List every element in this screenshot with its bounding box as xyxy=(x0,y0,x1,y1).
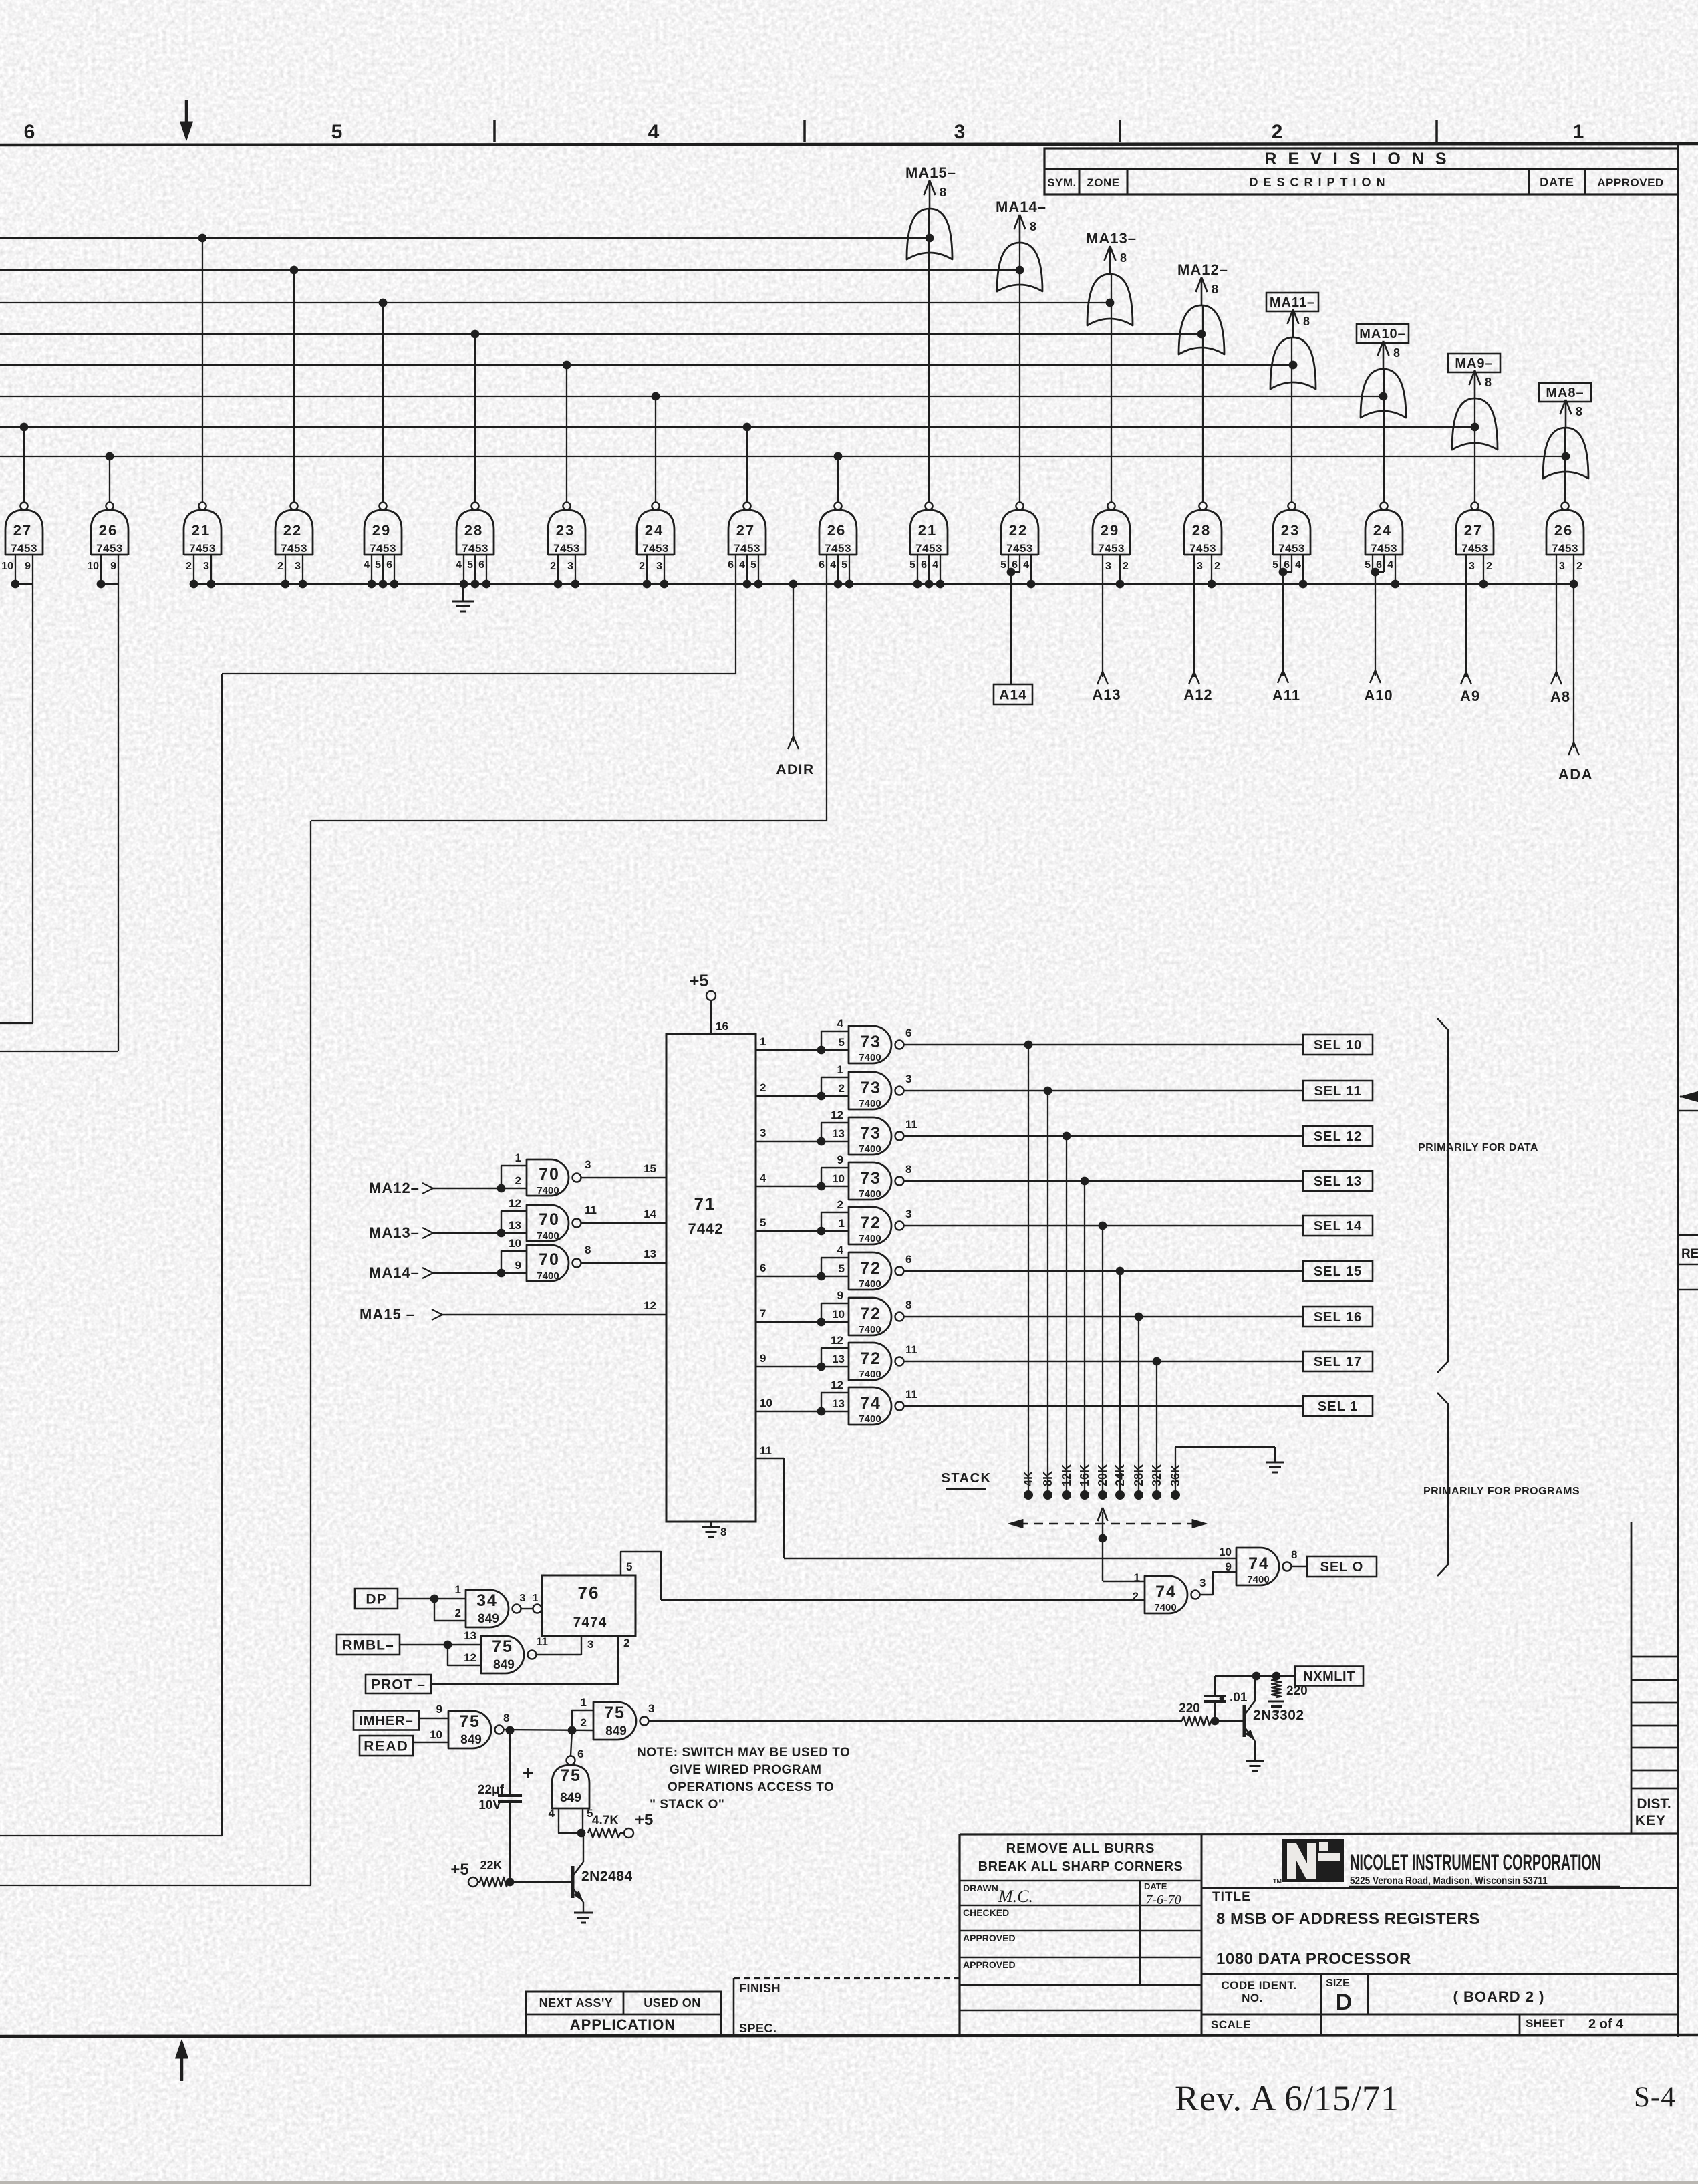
svg-text:3: 3 xyxy=(1105,561,1111,572)
svg-text:11: 11 xyxy=(585,1204,597,1216)
svg-text:SEL 11: SEL 11 xyxy=(1314,1084,1361,1099)
svg-text:70: 70 xyxy=(539,1210,560,1229)
svg-text:GIVE WIRED PROGRAM: GIVE WIRED PROGRAM xyxy=(670,1763,822,1777)
svg-text:21: 21 xyxy=(192,522,210,539)
svg-text:1: 1 xyxy=(760,1035,766,1048)
svg-text:SIZE: SIZE xyxy=(1326,1977,1350,1989)
svg-text:11: 11 xyxy=(905,1118,917,1131)
svg-text:74: 74 xyxy=(1248,1554,1270,1573)
svg-text:7453: 7453 xyxy=(915,542,942,555)
svg-text:7453: 7453 xyxy=(734,542,760,555)
svg-text:7453: 7453 xyxy=(1189,542,1216,555)
svg-text:849: 849 xyxy=(605,1724,627,1738)
svg-text:8: 8 xyxy=(1212,283,1218,296)
svg-text:SEL 10: SEL 10 xyxy=(1314,1038,1362,1053)
svg-text:13: 13 xyxy=(509,1219,521,1232)
svg-text:A13: A13 xyxy=(1092,686,1121,703)
svg-text:APPLICATION: APPLICATION xyxy=(570,2016,676,2033)
svg-text:PRIMARILY FOR PROGRAMS: PRIMARILY FOR PROGRAMS xyxy=(1423,1486,1580,1497)
svg-text:7400: 7400 xyxy=(859,1278,881,1290)
svg-text:2: 2 xyxy=(1123,561,1129,572)
svg-text:72: 72 xyxy=(860,1349,881,1368)
svg-text:5: 5 xyxy=(1272,559,1278,571)
svg-text:13: 13 xyxy=(832,1127,845,1140)
svg-text:DATE: DATE xyxy=(1144,1881,1167,1891)
svg-text:28K: 28K xyxy=(1132,1464,1145,1486)
svg-text:4: 4 xyxy=(837,1017,844,1030)
svg-text:28: 28 xyxy=(464,522,483,539)
svg-text:A14: A14 xyxy=(999,688,1027,703)
svg-text:10: 10 xyxy=(430,1728,442,1741)
svg-text:DRAWN: DRAWN xyxy=(963,1883,998,1893)
svg-text:5: 5 xyxy=(467,559,473,571)
svg-text:NOTE: SWITCH MAY BE USED T: NOTE: SWITCH MAY BE USED TO xyxy=(637,1746,850,1760)
svg-text:7453: 7453 xyxy=(11,542,37,555)
svg-text:+: + xyxy=(523,1762,533,1783)
svg-text:3: 3 xyxy=(905,1073,911,1085)
svg-text:7400: 7400 xyxy=(537,1230,559,1242)
svg-text:7474: 7474 xyxy=(573,1615,607,1630)
svg-text:SEL 13: SEL 13 xyxy=(1314,1174,1362,1189)
svg-text:3: 3 xyxy=(295,561,301,572)
svg-text:READ: READ xyxy=(364,1739,409,1754)
svg-text:6: 6 xyxy=(478,559,484,571)
svg-text:6: 6 xyxy=(728,559,734,571)
svg-text:SEL 16: SEL 16 xyxy=(1314,1310,1362,1325)
svg-text:8: 8 xyxy=(940,186,946,199)
svg-text:4: 4 xyxy=(364,559,370,571)
svg-text:5: 5 xyxy=(331,121,343,143)
svg-text:8: 8 xyxy=(503,1712,509,1724)
svg-text:SEL 17: SEL 17 xyxy=(1314,1355,1362,1369)
svg-text:2: 2 xyxy=(186,561,192,572)
svg-text:11: 11 xyxy=(905,1343,917,1356)
svg-text:220: 220 xyxy=(1286,1684,1308,1698)
svg-text:2: 2 xyxy=(1486,561,1492,572)
svg-text:9: 9 xyxy=(837,1289,843,1302)
svg-text:72: 72 xyxy=(860,1214,881,1232)
svg-text:5: 5 xyxy=(626,1560,632,1573)
svg-text:A11: A11 xyxy=(1272,687,1300,704)
svg-text:1: 1 xyxy=(839,1217,845,1230)
svg-text:72: 72 xyxy=(860,1259,881,1278)
svg-text:Rev. A 6/15/71: Rev. A 6/15/71 xyxy=(1175,2078,1399,2119)
svg-text:5225 Verona Road, Madison, Wis: 5225 Verona Road, Madison, Wisconsin 537… xyxy=(1350,1875,1548,1887)
svg-text:13: 13 xyxy=(832,1353,845,1365)
svg-text:849: 849 xyxy=(560,1791,581,1805)
svg-text:2: 2 xyxy=(455,1607,461,1619)
svg-text:4: 4 xyxy=(760,1172,766,1184)
svg-text:73: 73 xyxy=(860,1079,881,1097)
svg-text:29: 29 xyxy=(372,522,391,539)
svg-text:3: 3 xyxy=(656,561,662,572)
svg-text:ADIR: ADIR xyxy=(776,762,814,777)
svg-text:4.7K: 4.7K xyxy=(592,1814,619,1828)
svg-text:27: 27 xyxy=(1464,522,1483,539)
svg-text:MA12–: MA12– xyxy=(1177,261,1228,278)
svg-text:APPROVED: APPROVED xyxy=(963,1959,1016,1970)
svg-text:8: 8 xyxy=(1485,376,1492,389)
svg-text:TITLE: TITLE xyxy=(1212,1890,1251,1904)
svg-text:7453: 7453 xyxy=(1552,542,1578,555)
svg-text:A8: A8 xyxy=(1550,688,1570,705)
svg-text:MA9–: MA9– xyxy=(1455,356,1493,371)
svg-text:6: 6 xyxy=(921,559,927,571)
svg-text:12: 12 xyxy=(831,1379,843,1391)
svg-text:A12: A12 xyxy=(1183,686,1212,703)
svg-text:7453: 7453 xyxy=(189,542,216,555)
svg-text:9: 9 xyxy=(110,561,116,572)
svg-text:NXMLIT: NXMLIT xyxy=(1303,1669,1355,1684)
svg-text:1: 1 xyxy=(1573,121,1584,143)
svg-text:74: 74 xyxy=(860,1394,881,1413)
svg-text:12: 12 xyxy=(831,1334,843,1347)
svg-text:13: 13 xyxy=(644,1248,656,1260)
svg-text:2: 2 xyxy=(623,1637,629,1649)
svg-text:MA13–: MA13– xyxy=(1086,230,1137,247)
svg-text:SEL 12: SEL 12 xyxy=(1314,1129,1362,1144)
svg-text:8: 8 xyxy=(905,1299,911,1311)
svg-text:8: 8 xyxy=(1303,315,1310,328)
svg-text:7400: 7400 xyxy=(859,1324,881,1335)
svg-text:3: 3 xyxy=(954,121,966,143)
svg-text:7400: 7400 xyxy=(1247,1574,1269,1585)
svg-text:FINISH: FINISH xyxy=(739,1982,781,1995)
svg-text:34: 34 xyxy=(476,1591,498,1610)
svg-text:4K: 4K xyxy=(1022,1471,1035,1486)
svg-text:74: 74 xyxy=(1155,1583,1177,1601)
svg-text:6: 6 xyxy=(577,1748,583,1760)
svg-text:8: 8 xyxy=(1393,346,1400,360)
svg-text:DP: DP xyxy=(366,1592,386,1607)
svg-text:7453: 7453 xyxy=(281,542,307,555)
svg-text:12: 12 xyxy=(831,1109,843,1121)
svg-text:4: 4 xyxy=(739,559,745,571)
svg-text:22: 22 xyxy=(1009,522,1028,539)
svg-text:2 of 4: 2 of 4 xyxy=(1588,2017,1624,2032)
svg-text:MA8–: MA8– xyxy=(1546,386,1584,400)
svg-text:73: 73 xyxy=(860,1124,881,1143)
svg-text:7453: 7453 xyxy=(96,542,123,555)
svg-text:2: 2 xyxy=(515,1174,521,1187)
svg-text:5: 5 xyxy=(375,559,381,571)
svg-text:D: D xyxy=(1336,1990,1353,2015)
svg-text:7453: 7453 xyxy=(1278,542,1305,555)
svg-text:5: 5 xyxy=(760,1216,766,1229)
svg-text:75: 75 xyxy=(459,1712,480,1731)
svg-text:849: 849 xyxy=(460,1733,482,1747)
svg-text:4: 4 xyxy=(932,559,938,571)
svg-text:3: 3 xyxy=(203,561,209,572)
svg-text:OPERATIONS ACCESS TO: OPERATIONS ACCESS TO xyxy=(668,1780,834,1794)
svg-text:9: 9 xyxy=(760,1352,766,1365)
svg-text:SEL 15: SEL 15 xyxy=(1314,1264,1362,1279)
svg-text:A9: A9 xyxy=(1460,688,1480,704)
svg-text:8: 8 xyxy=(905,1163,911,1176)
svg-text:7400: 7400 xyxy=(859,1413,881,1425)
svg-text:6: 6 xyxy=(905,1253,911,1266)
svg-text:5: 5 xyxy=(839,1262,845,1275)
svg-text:22: 22 xyxy=(283,522,302,539)
svg-text:10: 10 xyxy=(832,1172,845,1185)
svg-text:2: 2 xyxy=(550,561,556,572)
svg-text:8: 8 xyxy=(1120,251,1127,265)
svg-text:SCALE: SCALE xyxy=(1211,2018,1251,2031)
svg-text:1: 1 xyxy=(1134,1571,1140,1584)
svg-text:PRIMARILY FOR DATA: PRIMARILY FOR DATA xyxy=(1418,1142,1538,1153)
svg-text:DATE: DATE xyxy=(1540,176,1574,189)
svg-text:76: 76 xyxy=(578,1583,600,1603)
svg-text:SYM.: SYM. xyxy=(1047,176,1077,189)
svg-text:1: 1 xyxy=(533,1593,539,1604)
svg-text:8: 8 xyxy=(585,1244,591,1256)
svg-text:3: 3 xyxy=(648,1702,654,1715)
svg-text:7400: 7400 xyxy=(859,1233,881,1244)
svg-text:24: 24 xyxy=(645,522,664,539)
svg-text:849: 849 xyxy=(478,1612,499,1626)
svg-text:849: 849 xyxy=(493,1658,515,1672)
svg-text:MA11–: MA11– xyxy=(1270,295,1315,310)
svg-text:7453: 7453 xyxy=(553,542,580,555)
svg-text:7400: 7400 xyxy=(859,1143,881,1155)
svg-text:70: 70 xyxy=(539,1250,560,1269)
svg-text:12K: 12K xyxy=(1060,1464,1073,1486)
svg-text:8: 8 xyxy=(1291,1548,1297,1561)
svg-text:2: 2 xyxy=(1576,561,1582,572)
svg-text:7400: 7400 xyxy=(537,1270,559,1282)
svg-text:4: 4 xyxy=(830,559,836,571)
svg-text:4: 4 xyxy=(549,1807,555,1820)
svg-text:3: 3 xyxy=(760,1127,766,1139)
svg-text:" STACK O": " STACK O" xyxy=(650,1798,724,1812)
svg-text:9: 9 xyxy=(515,1259,521,1272)
svg-text:MA15 –: MA15 – xyxy=(360,1306,415,1323)
svg-text:SPEC.: SPEC. xyxy=(739,2022,777,2035)
svg-text:9: 9 xyxy=(837,1153,843,1166)
svg-text:7400: 7400 xyxy=(859,1098,881,1109)
svg-text:5: 5 xyxy=(1365,559,1371,571)
svg-text:4: 4 xyxy=(456,559,462,571)
svg-text:1: 1 xyxy=(837,1063,843,1076)
svg-text:72: 72 xyxy=(860,1305,881,1323)
svg-text:1: 1 xyxy=(455,1583,461,1596)
svg-text:2N3302: 2N3302 xyxy=(1253,1708,1304,1723)
svg-text:2: 2 xyxy=(1272,121,1283,143)
svg-text:5: 5 xyxy=(909,559,915,571)
svg-text:3: 3 xyxy=(520,1593,526,1604)
svg-text:2: 2 xyxy=(581,1716,587,1729)
svg-text:4: 4 xyxy=(1387,559,1393,571)
svg-text:26: 26 xyxy=(99,522,118,539)
svg-text:9: 9 xyxy=(25,561,31,572)
svg-text:NO.: NO. xyxy=(1242,1992,1263,2004)
svg-text:15: 15 xyxy=(644,1162,656,1175)
svg-text:8: 8 xyxy=(1030,220,1036,233)
svg-text:RMBL–: RMBL– xyxy=(342,1638,394,1653)
svg-text:73: 73 xyxy=(860,1169,881,1188)
svg-text:9: 9 xyxy=(436,1703,442,1716)
svg-text:DESCRIPTION: DESCRIPTION xyxy=(1249,176,1390,189)
svg-text:7400: 7400 xyxy=(859,1188,881,1200)
svg-text:8 MSB OF ADDRESS REGISTERS: 8 MSB OF ADDRESS REGISTERS xyxy=(1216,1910,1480,1928)
svg-text:3: 3 xyxy=(587,1638,593,1651)
svg-text:8K: 8K xyxy=(1041,1471,1054,1486)
svg-text:3: 3 xyxy=(1197,561,1203,572)
svg-text:2: 2 xyxy=(837,1198,843,1211)
svg-text:( BOARD 2 ): ( BOARD 2 ) xyxy=(1453,1988,1545,2005)
svg-text:2: 2 xyxy=(1214,561,1220,572)
svg-text:IMHER–: IMHER– xyxy=(359,1714,414,1728)
svg-text:24K: 24K xyxy=(1113,1464,1127,1486)
svg-text:SHEET: SHEET xyxy=(1526,2017,1565,2030)
svg-text:7400: 7400 xyxy=(1154,1602,1176,1613)
svg-text:5: 5 xyxy=(1000,559,1006,571)
svg-text:73: 73 xyxy=(860,1033,881,1051)
svg-text:M.C.: M.C. xyxy=(998,1887,1033,1906)
svg-text:7453: 7453 xyxy=(1006,542,1033,555)
svg-text:71: 71 xyxy=(694,1194,716,1214)
svg-text:16K: 16K xyxy=(1078,1464,1091,1486)
svg-text:NEXT ASS'Y: NEXT ASS'Y xyxy=(539,1996,613,2010)
svg-text:16: 16 xyxy=(716,1020,728,1033)
svg-text:7453: 7453 xyxy=(825,542,851,555)
svg-text:MA14–: MA14– xyxy=(369,1264,420,1281)
svg-text:12: 12 xyxy=(509,1197,521,1210)
svg-text:2: 2 xyxy=(760,1081,766,1094)
svg-text:1080 DATA PROCESSOR: 1080 DATA PROCESSOR xyxy=(1216,1950,1411,1968)
svg-text:6: 6 xyxy=(760,1262,766,1274)
svg-text:5: 5 xyxy=(841,559,847,571)
svg-text:MA12–: MA12– xyxy=(369,1180,420,1196)
svg-text:SEL O: SEL O xyxy=(1320,1560,1364,1575)
svg-text:7453: 7453 xyxy=(1098,542,1125,555)
svg-text:+5: +5 xyxy=(690,972,709,990)
svg-text:+5: +5 xyxy=(450,1861,468,1879)
svg-text:29: 29 xyxy=(1101,522,1119,539)
svg-text:3: 3 xyxy=(567,561,573,572)
svg-text:REVISIONS: REVISIONS xyxy=(1264,150,1457,168)
svg-text:7-6-70: 7-6-70 xyxy=(1145,1893,1181,1907)
svg-text:23: 23 xyxy=(1281,522,1300,539)
svg-text:10V: 10V xyxy=(478,1798,501,1812)
svg-text:A10: A10 xyxy=(1364,687,1393,704)
svg-text:MA15–: MA15– xyxy=(905,164,956,181)
svg-text:10: 10 xyxy=(87,561,99,572)
svg-text:28: 28 xyxy=(1192,522,1211,539)
svg-text:24: 24 xyxy=(1373,522,1392,539)
svg-text:75: 75 xyxy=(604,1703,625,1722)
svg-text:7400: 7400 xyxy=(537,1185,559,1196)
svg-text:220: 220 xyxy=(1179,1701,1200,1716)
svg-text:.01: .01 xyxy=(1230,1691,1248,1705)
svg-text:7453: 7453 xyxy=(462,542,488,555)
svg-text:6: 6 xyxy=(905,1027,911,1039)
svg-text:6: 6 xyxy=(24,121,35,143)
svg-text:21: 21 xyxy=(918,522,937,539)
svg-text:3: 3 xyxy=(1559,561,1565,572)
svg-text:8: 8 xyxy=(1576,405,1582,418)
svg-text:MA10–: MA10– xyxy=(1359,327,1405,342)
svg-text:23: 23 xyxy=(556,522,575,539)
svg-text:6: 6 xyxy=(819,559,825,571)
svg-text:2N2484: 2N2484 xyxy=(581,1869,633,1884)
svg-text:10: 10 xyxy=(1,561,13,572)
svg-text:NICOLET INSTRUMENT CORPORATION: NICOLET INSTRUMENT CORPORATION xyxy=(1350,1849,1601,1875)
svg-text:USED ON: USED ON xyxy=(644,1996,701,2010)
svg-text:SEL 14: SEL 14 xyxy=(1314,1219,1362,1234)
svg-text:75: 75 xyxy=(560,1766,581,1785)
svg-text:TM: TM xyxy=(1273,1878,1282,1885)
svg-text:10: 10 xyxy=(760,1397,772,1409)
svg-text:10: 10 xyxy=(1219,1546,1232,1558)
svg-text:12: 12 xyxy=(464,1651,476,1664)
svg-text:7453: 7453 xyxy=(370,542,396,555)
svg-text:11: 11 xyxy=(905,1388,917,1401)
svg-text:10: 10 xyxy=(509,1237,521,1250)
svg-text:APPROVED: APPROVED xyxy=(963,1933,1016,1943)
svg-text:PROT –: PROT – xyxy=(371,1677,426,1693)
svg-text:4: 4 xyxy=(648,121,660,143)
svg-text:9: 9 xyxy=(1226,1560,1232,1573)
svg-text:3: 3 xyxy=(585,1158,591,1171)
svg-text:7453: 7453 xyxy=(642,542,669,555)
svg-text:27: 27 xyxy=(13,522,32,539)
svg-text:26: 26 xyxy=(827,522,846,539)
svg-text:RE: RE xyxy=(1681,1247,1698,1261)
svg-text:4: 4 xyxy=(837,1244,844,1256)
svg-text:1: 1 xyxy=(581,1696,587,1709)
svg-text:CODE IDENT.: CODE IDENT. xyxy=(1221,1979,1296,1992)
svg-text:1: 1 xyxy=(515,1151,521,1164)
svg-text:32K: 32K xyxy=(1150,1464,1163,1486)
svg-text:13: 13 xyxy=(832,1397,845,1410)
svg-text:DIST.: DIST. xyxy=(1637,1796,1671,1812)
svg-text:6: 6 xyxy=(386,559,392,571)
svg-text:SEL 1: SEL 1 xyxy=(1318,1399,1358,1414)
svg-text:2: 2 xyxy=(839,1082,845,1095)
svg-text:7453: 7453 xyxy=(1371,542,1397,555)
svg-text:STACK: STACK xyxy=(942,1471,992,1486)
svg-text:REMOVE ALL BURRS: REMOVE ALL BURRS xyxy=(1006,1841,1155,1856)
svg-text:12: 12 xyxy=(644,1299,656,1312)
svg-text:7: 7 xyxy=(760,1307,766,1320)
svg-text:5: 5 xyxy=(750,559,756,571)
svg-text:11: 11 xyxy=(760,1444,772,1457)
svg-text:7442: 7442 xyxy=(688,1220,724,1237)
svg-text:4: 4 xyxy=(1295,559,1301,571)
svg-text:4: 4 xyxy=(1023,559,1029,571)
svg-text:70: 70 xyxy=(539,1165,560,1184)
svg-text:BREAK ALL SHARP CORNERS: BREAK ALL SHARP CORNERS xyxy=(978,1859,1183,1874)
svg-text:5: 5 xyxy=(839,1036,845,1049)
svg-text:S-4: S-4 xyxy=(1634,2082,1676,2113)
svg-text:27: 27 xyxy=(736,522,755,539)
svg-text:2: 2 xyxy=(639,561,645,572)
svg-text:36K: 36K xyxy=(1169,1464,1182,1486)
svg-text:10: 10 xyxy=(832,1308,845,1321)
svg-text:MA14–: MA14– xyxy=(996,198,1046,215)
svg-text:KEY: KEY xyxy=(1635,1813,1666,1828)
svg-text:13: 13 xyxy=(464,1629,476,1642)
svg-text:75: 75 xyxy=(492,1637,513,1656)
svg-text:ZONE: ZONE xyxy=(1087,176,1119,189)
svg-text:14: 14 xyxy=(644,1208,656,1220)
svg-text:APPROVED: APPROVED xyxy=(1597,176,1663,189)
svg-text:7400: 7400 xyxy=(859,1369,881,1380)
svg-text:2: 2 xyxy=(277,561,283,572)
svg-text:26: 26 xyxy=(1554,522,1573,539)
svg-text:3: 3 xyxy=(905,1208,911,1220)
